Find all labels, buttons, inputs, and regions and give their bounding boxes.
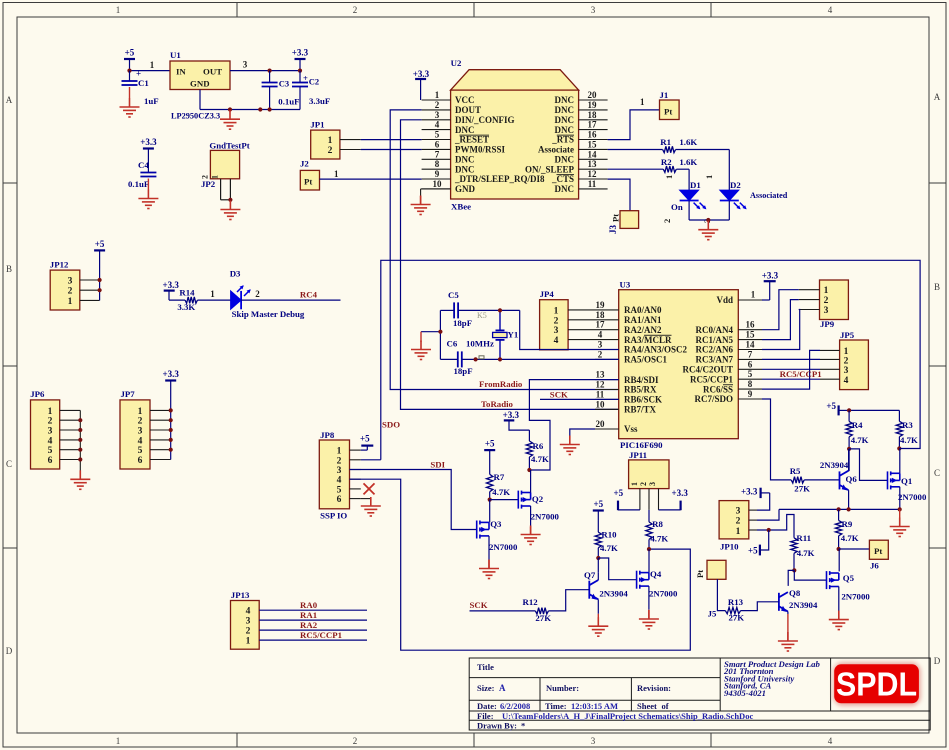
- svg-text:4.7K: 4.7K: [900, 435, 918, 445]
- test point J2: [300, 159, 320, 190]
- svg-text:JP7: JP7: [121, 389, 136, 399]
- test point J5: [695, 560, 726, 618]
- svg-text:J6: J6: [870, 561, 879, 571]
- svg-text:R7: R7: [494, 472, 505, 482]
- ground Q1/Q6 rail: [890, 509, 910, 536]
- svg-text:3: 3: [844, 366, 849, 376]
- ground JP8 pin6: [361, 497, 381, 516]
- resistor R12 27K: [523, 597, 552, 623]
- transistor Q5 2N7000: [827, 571, 871, 601]
- svg-text:+3.3: +3.3: [163, 280, 180, 290]
- svg-text:1uF: 1uF: [144, 96, 159, 106]
- wire DOUT net (XBee pin2 to PIC RX): [390, 110, 619, 390]
- svg-text:4.7K: 4.7K: [650, 534, 668, 544]
- svg-text:of: of: [662, 701, 669, 711]
- capacitor C4: [128, 160, 156, 189]
- svg-text:RC2/AN6: RC2/AN6: [696, 345, 734, 355]
- wire JP9 pin1 to PIC RC0: [762, 290, 799, 330]
- power +5 (JP12): [94, 239, 105, 301]
- ground C4: [138, 179, 158, 209]
- svg-text:A: A: [6, 95, 13, 105]
- svg-text:1: 1: [640, 97, 645, 107]
- svg-text:4: 4: [138, 436, 143, 446]
- svg-text:2: 2: [353, 5, 358, 15]
- ground LEDs: [698, 221, 718, 240]
- svg-text:OUT: OUT: [203, 67, 222, 77]
- svg-text:D1: D1: [690, 180, 701, 190]
- svg-text:20: 20: [596, 419, 606, 429]
- wire crystal left leg: [421, 310, 440, 359]
- microcontroller U3 PIC16F690: [619, 280, 739, 451]
- power +5 (C1/U1 input): [124, 48, 135, 71]
- svg-text:K5: K5: [477, 311, 487, 320]
- power +5 (R10): [593, 499, 604, 532]
- svg-text:1: 1: [337, 447, 342, 457]
- svg-text:2: 2: [435, 100, 440, 110]
- XBee module U2: [451, 58, 579, 212]
- svg-text:_CTS: _CTS: [551, 174, 574, 184]
- svg-text:2N7000: 2N7000: [898, 492, 927, 502]
- junction: [767, 528, 771, 532]
- svg-text:Associate: Associate: [538, 145, 574, 155]
- connector JP11: [629, 450, 669, 510]
- wire JP8 pin4 long loop to Q4 drain node: [350, 479, 691, 650]
- svg-text:JP5: JP5: [840, 330, 855, 340]
- test point JP2 GndTestPt: [201, 141, 250, 190]
- svg-text:JP4: JP4: [540, 289, 555, 299]
- svg-text:Q2: Q2: [532, 494, 544, 504]
- svg-text:3.3uF: 3.3uF: [309, 96, 330, 106]
- svg-text:1: 1: [116, 5, 121, 15]
- wire JP10 pin2 to ground rail: [757, 509, 779, 520]
- junction: [268, 69, 272, 73]
- svg-text:1: 1: [246, 637, 251, 647]
- connector JP10: [719, 501, 757, 552]
- svg-text:1: 1: [736, 527, 741, 537]
- svg-text:10: 10: [596, 399, 606, 409]
- svg-text:RC1/AN5: RC1/AN5: [696, 335, 734, 345]
- svg-text:27K: 27K: [535, 613, 551, 623]
- svg-text:+3.3: +3.3: [163, 369, 180, 379]
- power +3.3 (R6): [503, 410, 530, 430]
- svg-text:Sheet: Sheet: [637, 701, 657, 711]
- svg-text:3: 3: [598, 340, 603, 350]
- svg-text:+: +: [303, 73, 308, 83]
- svg-text:17: 17: [596, 320, 606, 330]
- svg-text:RA0: RA0: [300, 600, 318, 610]
- svg-text:LP2950CZ3.3: LP2950CZ3.3: [171, 112, 220, 121]
- svg-text:+3.3: +3.3: [741, 486, 758, 496]
- connector JP4: [540, 289, 569, 350]
- svg-text:ToRadio: ToRadio: [481, 399, 514, 409]
- svg-text:R4: R4: [852, 420, 863, 430]
- svg-text:3: 3: [648, 482, 657, 486]
- wire JP9 pin3 to PIC RC2: [762, 310, 800, 350]
- svg-text:2: 2: [353, 736, 358, 746]
- svg-text:DNC: DNC: [455, 155, 475, 165]
- svg-text:3: 3: [243, 60, 248, 70]
- junctions JP6: [78, 418, 82, 462]
- junction: [647, 547, 651, 551]
- svg-text:18pF: 18pF: [453, 318, 472, 328]
- svg-text:RC6/SS: RC6/SS: [703, 384, 733, 394]
- wire XBee _CTS to J3: [608, 179, 630, 211]
- svg-text:Title: Title: [477, 662, 494, 672]
- svg-text:19: 19: [588, 100, 598, 110]
- svg-text:2: 2: [138, 417, 143, 427]
- svg-text:9: 9: [748, 389, 753, 399]
- svg-text:On: On: [671, 202, 683, 212]
- power +5 (JP8 pin1): [360, 434, 373, 451]
- svg-text:2: 2: [598, 349, 603, 359]
- svg-text:3: 3: [591, 736, 596, 746]
- wire J2 to XBee pin 9: [320, 169, 422, 179]
- svg-text:+5: +5: [748, 545, 758, 555]
- wire JP2 pins to ground: [221, 179, 231, 200]
- svg-text:RC5/CCP1: RC5/CCP1: [780, 369, 822, 379]
- resistor R8 4.7K: [646, 510, 669, 549]
- resistor R13 27K: [725, 597, 744, 622]
- resistor R4 4.7K: [846, 410, 869, 449]
- svg-text:10: 10: [433, 179, 443, 189]
- svg-text:4: 4: [828, 736, 833, 746]
- svg-text:13: 13: [596, 370, 606, 380]
- svg-text:Drawn By:: Drawn By:: [477, 721, 517, 731]
- svg-text:+5: +5: [826, 401, 836, 411]
- svg-text:Associated: Associated: [750, 191, 788, 200]
- svg-text:Date:: Date:: [477, 701, 497, 711]
- svg-text:D: D: [934, 656, 941, 666]
- address Smart Product Design Lab: [723, 659, 820, 698]
- svg-text:_DTR/SLEEP_RQ/DI8: _DTR/SLEEP_RQ/DI8: [454, 174, 545, 184]
- wire JP8 pin3 SDI to Q3 gate: [350, 470, 477, 530]
- voltage regulator U1: [170, 50, 230, 121]
- svg-text:3: 3: [138, 427, 143, 437]
- svg-text:6: 6: [435, 139, 440, 149]
- svg-text:4.7K: 4.7K: [851, 435, 869, 445]
- svg-text:JP12: JP12: [50, 259, 69, 269]
- crystal Y1 10MHz: [466, 310, 518, 359]
- svg-text:13: 13: [588, 159, 598, 169]
- svg-text:12: 12: [596, 380, 606, 390]
- svg-text:1: 1: [48, 407, 53, 417]
- svg-text:DIN/_CONFIG: DIN/_CONFIG: [455, 115, 515, 125]
- wire R7 to Q2 gate: [490, 499, 519, 501]
- svg-text:DOUT: DOUT: [455, 105, 481, 115]
- connector JP1: [310, 120, 360, 159]
- no-connect X JP8 pin5: [364, 483, 375, 494]
- wire R11 to Q5 gate: [794, 570, 826, 580]
- svg-text:R8: R8: [652, 519, 663, 529]
- junction: [474, 357, 478, 361]
- LED D3 Skip Master Debug: [230, 268, 305, 319]
- connector JP6: [30, 389, 80, 469]
- svg-text:R2: R2: [661, 157, 672, 167]
- svg-text:2N3904: 2N3904: [599, 588, 628, 598]
- svg-text:R13: R13: [728, 597, 744, 607]
- svg-text:10MHz: 10MHz: [466, 338, 494, 348]
- svg-text:PIC16F690: PIC16F690: [620, 440, 663, 450]
- resistor R6 4.7K: [526, 430, 549, 470]
- svg-text:3: 3: [824, 306, 829, 316]
- svg-text:SDO: SDO: [382, 420, 400, 430]
- svg-text:RA1: RA1: [300, 610, 317, 620]
- junctions JP7: [169, 408, 173, 452]
- svg-text:+5: +5: [125, 48, 135, 58]
- junction: [438, 330, 442, 334]
- svg-text:+3.3: +3.3: [503, 410, 520, 420]
- svg-text:5: 5: [337, 485, 342, 495]
- svg-text:SCK: SCK: [470, 600, 488, 610]
- test point J6: [869, 540, 888, 570]
- wire J5 to R13: [717, 579, 725, 610]
- svg-text:3: 3: [554, 326, 559, 336]
- wire Q7 collector: [597, 572, 599, 580]
- svg-text:JP10: JP10: [720, 542, 739, 552]
- svg-text:JP2: JP2: [201, 179, 216, 189]
- wire R11 to Q8 collector: [788, 570, 794, 586]
- svg-text:D2: D2: [730, 180, 741, 190]
- svg-text:JP8: JP8: [320, 430, 335, 440]
- wire PIC Vss to ground: [570, 429, 595, 437]
- svg-text:*: *: [521, 721, 525, 731]
- svg-text:Q1: Q1: [901, 476, 912, 486]
- power +3.3 (XBee VCC): [413, 69, 430, 100]
- wire +5 rail: [849, 409, 899, 411]
- capacitor C1: [122, 69, 159, 107]
- svg-text:3: 3: [736, 507, 741, 517]
- svg-text:1: 1: [630, 482, 639, 486]
- ground JP6: [70, 470, 90, 489]
- svg-text:RC5/CCP1: RC5/CCP1: [300, 630, 342, 640]
- svg-text:3: 3: [68, 277, 73, 287]
- svg-text:RC4: RC4: [300, 290, 318, 300]
- svg-text:1: 1: [664, 175, 674, 179]
- wire PIC RC3 to JP5 pin2: [762, 358, 820, 360]
- power +3.3 (JP11): [659, 488, 689, 510]
- power +5 (R4/R3 rail): [826, 401, 849, 415]
- svg-text:5: 5: [748, 369, 753, 379]
- svg-text:JP1: JP1: [310, 120, 324, 130]
- wire R10 to Q7 collector: [597, 558, 599, 572]
- svg-text:J5: J5: [708, 609, 717, 619]
- junction: [98, 288, 102, 292]
- svg-text:SSP IO: SSP IO: [320, 511, 347, 521]
- connector JP5: [820, 330, 868, 390]
- junction: [706, 218, 710, 222]
- svg-text:1: 1: [435, 90, 440, 100]
- svg-text:2: 2: [736, 517, 741, 527]
- svg-text:27K: 27K: [729, 612, 745, 622]
- wire R9/Q5 drain/J6: [839, 549, 870, 571]
- connector JP8: [319, 430, 361, 521]
- svg-text:Vss: Vss: [624, 424, 638, 434]
- svg-text:16: 16: [588, 130, 598, 140]
- svg-text:6: 6: [748, 359, 753, 369]
- transistor Q7 2N3904: [584, 570, 628, 600]
- svg-text:GND: GND: [455, 184, 476, 194]
- wire R13 to Q8 base: [741, 602, 779, 611]
- svg-text:6: 6: [337, 495, 342, 505]
- svg-text:18pF: 18pF: [454, 366, 473, 376]
- svg-text:1: 1: [824, 286, 829, 296]
- wire JP1 to XBee pins 5,6: [361, 140, 422, 150]
- svg-text:3: 3: [48, 427, 53, 437]
- svg-text:4: 4: [246, 607, 251, 617]
- svg-text:5: 5: [138, 446, 143, 456]
- ground PIC Vss: [560, 436, 580, 455]
- svg-text:DNC: DNC: [455, 125, 475, 135]
- svg-text:FromRadio: FromRadio: [479, 379, 523, 389]
- svg-text:1: 1: [328, 136, 333, 146]
- svg-text:Pt: Pt: [695, 570, 705, 578]
- svg-text:C4: C4: [138, 160, 149, 170]
- junction: [498, 308, 502, 312]
- resistor R5 27K: [790, 466, 840, 493]
- svg-text:RB4/SDI: RB4/SDI: [624, 375, 659, 385]
- wire Q1 drain: [899, 449, 901, 474]
- svg-text:+5: +5: [593, 499, 603, 509]
- svg-text:B: B: [934, 282, 940, 292]
- svg-text:27K: 27K: [794, 483, 810, 493]
- svg-text:J2: J2: [300, 159, 309, 169]
- svg-text:R3: R3: [902, 420, 913, 430]
- svg-text:8: 8: [748, 379, 753, 389]
- svg-text:Q3: Q3: [490, 519, 502, 529]
- wires JP4 to PIC RA0-RA3: [568, 310, 595, 340]
- svg-text:1.6K: 1.6K: [679, 157, 697, 167]
- svg-text:C5: C5: [448, 290, 459, 300]
- svg-text:Pt: Pt: [304, 177, 312, 187]
- junction: [792, 568, 796, 572]
- svg-text:Q5: Q5: [843, 573, 855, 583]
- svg-text:+5: +5: [614, 488, 624, 498]
- wire Q6 collector: [848, 449, 850, 471]
- junction: [847, 408, 851, 412]
- svg-text:Vdd: Vdd: [716, 295, 733, 305]
- svg-text:7: 7: [435, 149, 440, 159]
- title block text: [477, 662, 753, 731]
- wire JP13 pin4 RA0: [259, 609, 367, 611]
- svg-text:RA5/OSC1: RA5/OSC1: [624, 355, 668, 365]
- power +5 (JP11): [614, 488, 640, 510]
- wire Q8 emitter to ground: [778, 612, 798, 652]
- svg-text:Pt: Pt: [874, 546, 882, 556]
- svg-text:2: 2: [337, 456, 342, 466]
- ground JP2: [220, 201, 240, 220]
- wire PIC RC7/SDO down to R5: [762, 399, 791, 480]
- svg-text:DNC: DNC: [555, 115, 575, 125]
- svg-text:D: D: [6, 646, 13, 656]
- junction: [498, 357, 502, 361]
- svg-text:DNC: DNC: [555, 184, 575, 194]
- svg-text:GND: GND: [190, 79, 210, 89]
- resistor R14 3.3K: [169, 287, 197, 312]
- svg-text:4: 4: [844, 376, 849, 386]
- junction: [847, 447, 851, 451]
- svg-text:3: 3: [337, 466, 342, 476]
- junction: [228, 198, 232, 202]
- svg-text:ON/_SLEEP: ON/_SLEEP: [525, 164, 575, 174]
- wire R1 to LED D2: [704, 150, 729, 191]
- transistor Q2 2N7000: [518, 491, 559, 522]
- wire DIN net (XBee pin3 to PIC TX): [401, 120, 619, 410]
- svg-text:2: 2: [255, 289, 260, 299]
- wire JP13 pin1 RC5/CCP1: [259, 639, 367, 641]
- svg-text:3: 3: [246, 617, 251, 627]
- wire PIC RC6 to JP5 pin1: [762, 350, 820, 389]
- test point J3: [608, 211, 639, 234]
- resistor R3 4.7K: [896, 410, 918, 448]
- ground U1: [220, 110, 240, 129]
- svg-text:+3.3: +3.3: [672, 488, 689, 498]
- svg-text:SPDL: SPDL: [836, 666, 917, 703]
- svg-text:2: 2: [844, 356, 849, 366]
- svg-text:PWM0/RSSI: PWM0/RSSI: [455, 145, 506, 155]
- wire D3 to RC4: [241, 289, 340, 300]
- svg-text:12:03:15 AM: 12:03:15 AM: [571, 701, 618, 711]
- junction: [898, 507, 902, 511]
- wire U1 GND return: [200, 90, 300, 110]
- svg-text:A: A: [499, 683, 506, 693]
- svg-text:1: 1: [334, 169, 339, 179]
- svg-text:1: 1: [704, 175, 714, 179]
- svg-text:14: 14: [588, 149, 598, 159]
- svg-text:1.6K: 1.6K: [679, 137, 697, 147]
- svg-text:3: 3: [591, 5, 596, 15]
- wire JP9 pin2 to PIC RC1: [762, 300, 799, 340]
- svg-text:2N7000: 2N7000: [841, 592, 870, 602]
- svg-text:DNC: DNC: [555, 125, 575, 135]
- svg-text:DNC: DNC: [555, 95, 575, 105]
- svg-text:DNC: DNC: [455, 164, 475, 174]
- svg-text:4: 4: [598, 330, 603, 340]
- svg-text:2N7000: 2N7000: [489, 542, 518, 552]
- svg-text:XBee: XBee: [451, 202, 471, 212]
- power +3.3 (JP7): [163, 369, 180, 460]
- test point J1: [660, 90, 680, 120]
- transistor Q1 2N7000: [888, 471, 927, 502]
- junction: [527, 468, 531, 472]
- svg-text:Pt: Pt: [611, 214, 621, 222]
- wire R2 to LED D1: [664, 169, 689, 190]
- svg-text:Revision:: Revision:: [637, 683, 671, 693]
- wire PIC RB4 to R6/Q2 node: [529, 380, 618, 470]
- ground XBee GND: [411, 189, 451, 215]
- svg-text:U2: U2: [451, 58, 462, 68]
- junction: [228, 107, 232, 111]
- svg-text:B: B: [6, 264, 12, 274]
- wire PIC RC5 to JP5 pin4: [762, 378, 820, 380]
- svg-text:RA1/AN1: RA1/AN1: [624, 315, 662, 325]
- svg-text:U:\TeamFolders\A_H_J\FinalProj: U:\TeamFolders\A_H_J\FinalProject Schema…: [502, 711, 753, 721]
- svg-text:1: 1: [554, 306, 559, 316]
- svg-text:4: 4: [48, 436, 53, 446]
- svg-text:2: 2: [201, 175, 210, 179]
- capacitor C2: [292, 71, 330, 110]
- svg-text:17: 17: [588, 120, 598, 130]
- resistor R2 1.6K: [608, 157, 698, 173]
- svg-text:R14: R14: [179, 287, 195, 297]
- svg-text:R9: R9: [842, 519, 853, 529]
- wire OSC2 to PIC pin3: [520, 310, 619, 349]
- svg-text:R1: R1: [660, 137, 671, 147]
- svg-text:DNC: DNC: [555, 105, 575, 115]
- svg-text:4: 4: [435, 120, 440, 130]
- svg-text:5: 5: [435, 130, 440, 140]
- svg-text:RA2/AN2: RA2/AN2: [624, 325, 662, 335]
- wire JP13 pin3 RA1: [259, 619, 367, 621]
